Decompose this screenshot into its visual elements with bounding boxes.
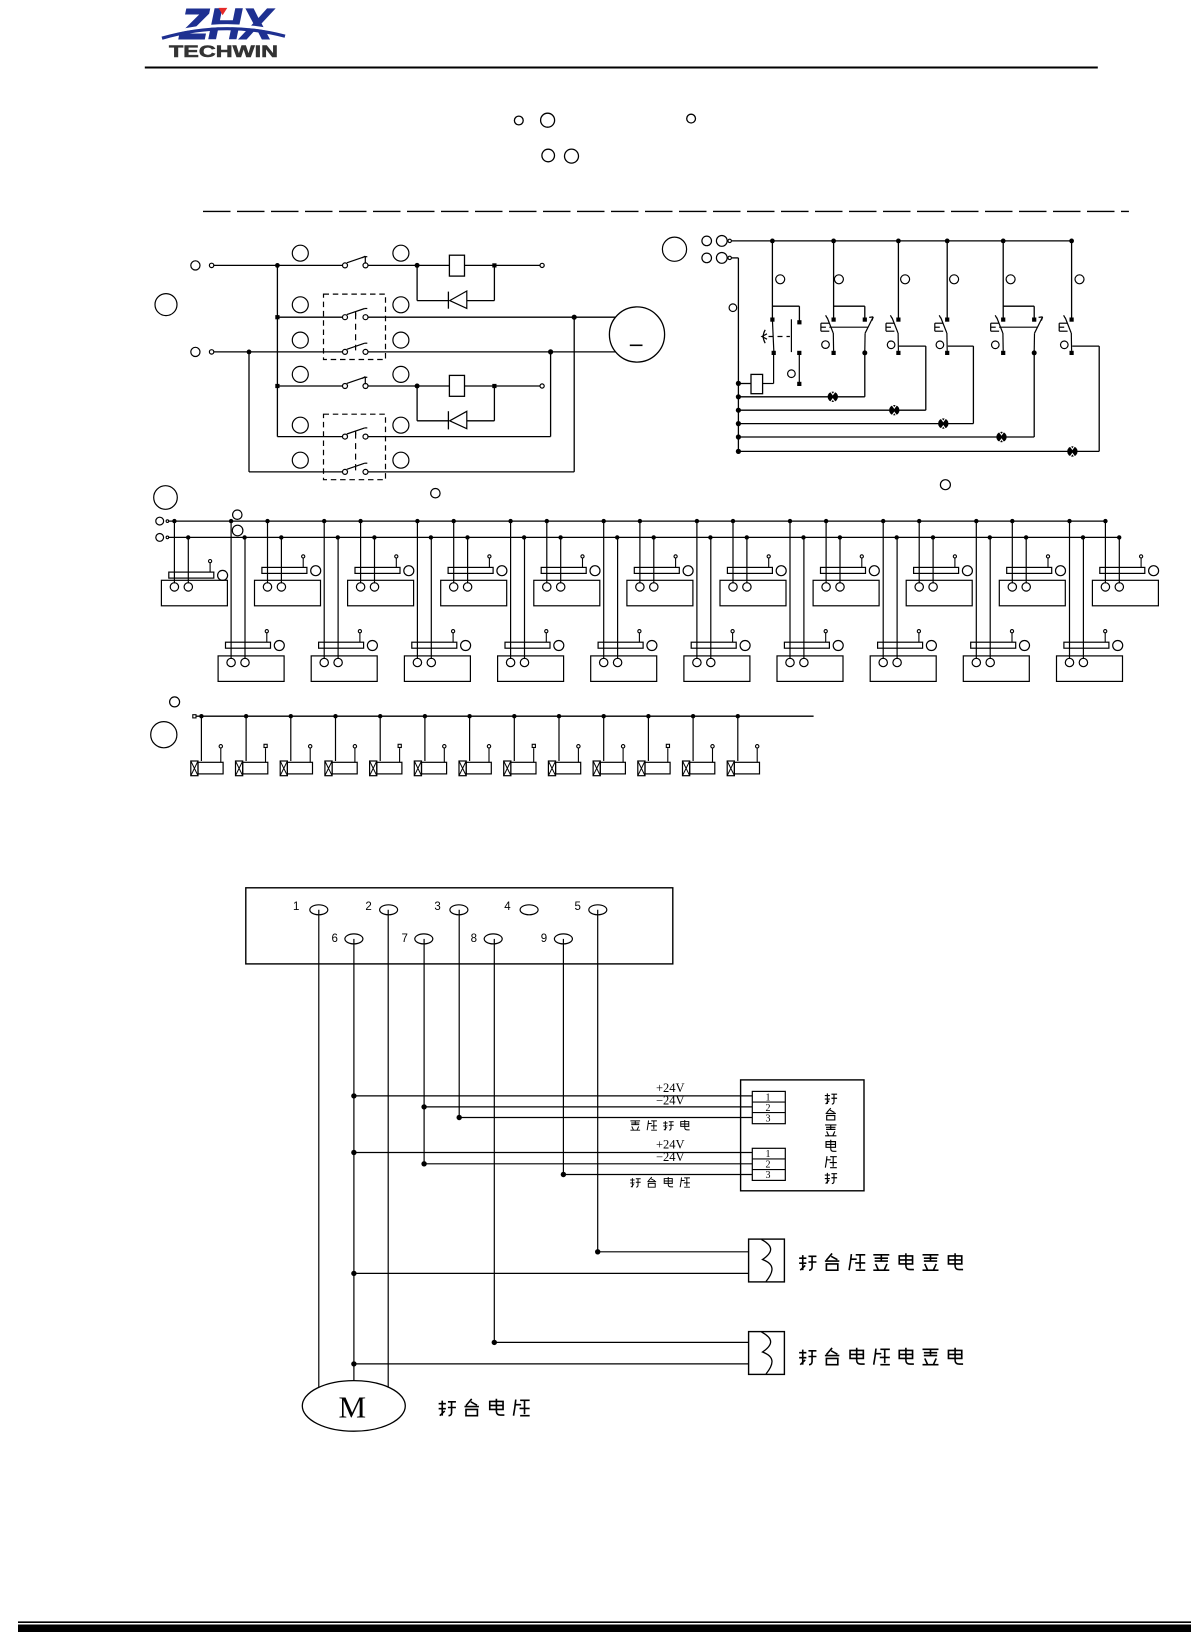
- left return bus vertical: [731, 258, 741, 454]
- flyback diode D1: [417, 267, 494, 308]
- turntable motor M: [302, 1381, 405, 1432]
- pin 1 of CN1: [293, 901, 328, 915]
- column label glyph circle C3: [901, 275, 910, 284]
- sensor block lower U15: [498, 521, 564, 681]
- wire pin8 trunk: [492, 939, 497, 1345]
- label turntable-pinch-solenoid (Chinese): [799, 1348, 963, 1365]
- title glyph circle C: [687, 114, 696, 123]
- solenoid valve Y12: [683, 716, 715, 776]
- svg-text:1: 1: [766, 1092, 771, 1103]
- header horizontal rule: [145, 67, 1098, 69]
- svg-text:6: 6: [332, 933, 338, 945]
- footer thin rule: [18, 1621, 1191, 1623]
- logo TECHWIN text: [169, 43, 278, 61]
- sensor block lower U19: [870, 521, 936, 681]
- wire pin6 to YV1: [354, 1272, 749, 1274]
- wire pin6 trunk: [351, 939, 356, 1381]
- terminal node row2 right circuit: [702, 253, 732, 264]
- label glyph circle L10: [393, 417, 409, 433]
- pin 5 of CN1: [575, 901, 607, 915]
- relay coil KA: [738, 374, 762, 393]
- wire pin3 trunk: [457, 910, 462, 1120]
- label glyph circle L12: [393, 452, 409, 468]
- label -24V lower: [656, 1150, 685, 1164]
- column label glyph circle C4: [950, 275, 959, 284]
- mechanical link dashes K1a: [355, 313, 357, 346]
- wire row1 left: [214, 263, 343, 268]
- solenoid valve Y5: [370, 716, 402, 776]
- glyph circle between buses: [232, 525, 243, 536]
- margin glyph circle left lower: [154, 486, 178, 510]
- svg-text:2: 2: [766, 1103, 771, 1114]
- glyph circle above bus1: [233, 510, 242, 519]
- switch S5 in interlock box K2a: [343, 428, 369, 439]
- pushbutton SB6: [1059, 241, 1074, 355]
- switch S3 in interlock box K1a: [343, 343, 369, 354]
- sensor block upper U5: [534, 521, 600, 606]
- solenoid valve Y13: [727, 716, 759, 776]
- title glyph circle B: [541, 113, 555, 127]
- wire SB2 to lamp row1: [738, 353, 864, 397]
- sensor block lower U18: [777, 521, 843, 681]
- wire row3 to motor: [368, 349, 616, 354]
- pushbutton SB4: [935, 241, 950, 355]
- svg-text:3: 3: [766, 1170, 771, 1181]
- label glyph circle L8: [393, 366, 409, 382]
- solenoid valve Y7: [459, 716, 491, 776]
- glyph circle SB5: [992, 341, 1000, 349]
- sensor block upper U11: [1092, 521, 1158, 606]
- left bus vertical wire x249: [249, 352, 343, 472]
- logo red triangle accent: [219, 8, 228, 15]
- net +24V (lower): [354, 1152, 752, 1154]
- wire pin9 trunk: [561, 939, 566, 1177]
- label table-in-position (Chinese): [630, 1177, 690, 1187]
- svg-text:4: 4: [504, 901, 511, 913]
- pin 4 of CN1: [504, 901, 538, 915]
- terminal node sensor bus2: [156, 534, 169, 542]
- switch S2 in interlock box K1a: [343, 309, 369, 320]
- sensor block lower U20: [963, 521, 1029, 681]
- pin 3 of CN1: [434, 901, 468, 915]
- wire K1 to terminal: [465, 263, 545, 267]
- column label glyph circle C2: [834, 275, 843, 284]
- margin glyph circle left mid: [155, 294, 177, 316]
- net -24V (upper): [424, 1106, 752, 1108]
- title glyph circle A: [514, 116, 523, 125]
- wire row3 left: [214, 350, 343, 355]
- logo swoosh arc: [162, 26, 285, 39]
- net zero-position-detect: [459, 1117, 752, 1119]
- emergency stop button SB1: [762, 241, 802, 386]
- turntable sensor board: [741, 1080, 864, 1191]
- wire SB6 to lamp: [738, 346, 1099, 451]
- sensor block upper U3: [348, 521, 414, 606]
- pushbutton SB3: [886, 241, 901, 355]
- wire pin8 to YV2: [494, 1341, 748, 1343]
- wire pin7 trunk: [421, 939, 426, 1167]
- glyph circle SB2: [822, 341, 830, 349]
- solenoid valve Y10: [593, 716, 625, 776]
- svg-text:2: 2: [766, 1160, 771, 1171]
- dashed enclosure box K1a: [324, 294, 386, 359]
- solenoid valve Y9: [548, 716, 580, 776]
- sensor block upper U2: [255, 521, 321, 606]
- pushbutton SB2 (dual pole): [821, 241, 873, 356]
- big glyph circle between circuits: [662, 237, 686, 261]
- connector block CN1: [246, 888, 673, 964]
- solenoid valve Y11: [638, 716, 670, 776]
- mechanical link dashes K2a: [355, 433, 357, 466]
- wire pin5 trunk: [595, 910, 600, 1255]
- sensor block lower U13: [311, 521, 377, 681]
- sensor block upper U7: [720, 521, 786, 606]
- svg-text:8: 8: [471, 933, 477, 945]
- label glyph circle L1: [292, 245, 308, 261]
- svg-text:3: 3: [434, 901, 440, 913]
- column label glyph circle C1: [776, 275, 785, 284]
- indicator lamp HL1: [828, 391, 838, 403]
- wire SB1 to relay coil KA: [763, 353, 774, 384]
- solenoid valve Y1: [191, 716, 223, 776]
- label turntable-motor (Chinese): [439, 1399, 530, 1416]
- switch S6 in interlock box K2a: [343, 463, 369, 474]
- flyback diode D2: [417, 388, 494, 429]
- glyph circle SB1: [788, 370, 796, 378]
- solenoid valve Y6: [414, 716, 446, 776]
- top bus wire right circuit: [731, 239, 1074, 244]
- label glyph circle L5: [292, 332, 308, 348]
- indicator lamp HL4: [996, 431, 1006, 443]
- svg-text:2: 2: [365, 901, 371, 913]
- terminal node left row3: [191, 347, 214, 356]
- label turntable-sensor-board (Chinese vertical): [825, 1093, 837, 1183]
- terminal node bus1 right circuit: [702, 236, 732, 247]
- glyph circle SB3: [887, 341, 895, 349]
- title glyph circle E: [565, 149, 579, 163]
- solenoid valve unlock YV1: [749, 1239, 785, 1282]
- wire row6 right: [368, 317, 574, 472]
- pushbutton SB5 (dual pole): [991, 241, 1043, 356]
- sensor block lower U14: [404, 521, 470, 681]
- sensor block upper U10: [999, 521, 1065, 606]
- switch S4: [343, 377, 369, 389]
- solenoid valve Y4: [325, 716, 357, 776]
- sensor block upper U9: [906, 521, 972, 606]
- label glyph circle L2: [393, 245, 409, 261]
- net table-in-position: [563, 1174, 752, 1176]
- terminal node sensor bus1: [156, 517, 169, 525]
- net -24V (lower): [424, 1163, 752, 1165]
- svg-text:3: 3: [766, 1113, 771, 1124]
- dashed enclosure box K2a: [324, 414, 386, 480]
- svg-text:M: M: [339, 1390, 367, 1425]
- indicator lamp HL5: [1067, 446, 1077, 458]
- label glyph circle L11: [292, 452, 308, 468]
- indicator lamp HL2: [889, 404, 899, 416]
- label glyph circle L3: [292, 297, 308, 313]
- pin 7 of CN1: [402, 933, 433, 945]
- svg-text:−24V: −24V: [656, 1093, 685, 1107]
- glyph circle SB6: [1061, 341, 1069, 349]
- footer thick bar: [18, 1625, 1191, 1633]
- solenoid valve pinch YV2: [749, 1332, 785, 1375]
- wire pin1 to motor: [318, 910, 320, 1388]
- dashed separator line: [203, 210, 1129, 212]
- terminal node left row1: [191, 261, 214, 270]
- junction row2: [275, 315, 342, 319]
- board connector J2: [752, 1148, 785, 1181]
- switch S1: [343, 256, 369, 268]
- glyph circle on return bus: [729, 304, 737, 312]
- glyph circle valve bus large: [151, 722, 177, 748]
- sensor block upper U8: [813, 521, 879, 606]
- column label glyph circle C5: [1006, 275, 1015, 284]
- company logo ZHX wordmark: [178, 0, 275, 49]
- valve bus wire: [193, 714, 814, 718]
- label glyph circle L9: [292, 417, 308, 433]
- solenoid valve Y8: [504, 716, 536, 776]
- label zero-position-detect (Chinese): [630, 1120, 689, 1130]
- pin 8 of CN1: [471, 933, 503, 945]
- label glyph circle L7: [292, 366, 308, 382]
- pin 6 of CN1: [332, 933, 363, 945]
- wire row5 right: [368, 352, 551, 437]
- sensor block lower U21: [1057, 521, 1123, 681]
- label +24V upper: [656, 1081, 685, 1095]
- sensor block upper U1: [161, 521, 227, 606]
- pin 2 of CN1: [365, 901, 397, 915]
- wire S1 to relay K1: [368, 263, 449, 268]
- junction row4: [275, 384, 342, 388]
- svg-text:1: 1: [293, 901, 299, 913]
- glyph circle SB4: [936, 341, 944, 349]
- board connector J1: [752, 1091, 785, 1124]
- label glyph circle L4: [393, 297, 409, 313]
- relay coil K2: [449, 375, 464, 396]
- solenoid valve Y3: [280, 716, 312, 776]
- wire row2 to motor: [368, 315, 616, 320]
- svg-text:1: 1: [766, 1149, 771, 1160]
- sensor bus2 wire: [169, 535, 1122, 539]
- wire K2 to terminal: [465, 384, 545, 388]
- svg-text:9: 9: [541, 933, 547, 945]
- wire pin5 to YV1: [598, 1251, 749, 1253]
- solenoid valve Y2: [236, 716, 268, 776]
- glyph circle mid top: [431, 489, 440, 498]
- column label glyph circle C6: [1075, 275, 1084, 284]
- sensor block lower U12: [218, 521, 284, 681]
- net +24V (upper): [354, 1095, 752, 1097]
- svg-text:7: 7: [402, 933, 408, 945]
- glyph circle valve bus small: [170, 697, 180, 707]
- label turntable-unlock-solenoid (Chinese): [799, 1253, 963, 1270]
- label -24V upper: [656, 1093, 685, 1107]
- pin 9 of CN1: [541, 933, 573, 945]
- wire S4 to relay K2: [368, 384, 449, 389]
- sensor block upper U6: [627, 521, 693, 606]
- svg-text:−24V: −24V: [656, 1150, 685, 1164]
- relay coil K1: [449, 255, 464, 276]
- glyph circle below right circuit: [940, 480, 950, 490]
- sensor block upper U4: [441, 521, 507, 606]
- label +24V lower: [656, 1138, 685, 1152]
- wire pin2 to motor: [387, 910, 389, 1387]
- svg-text:5: 5: [575, 901, 581, 913]
- svg-text:TECHWIN: TECHWIN: [169, 43, 278, 61]
- motor M1 (DC): [609, 307, 664, 362]
- sensor block lower U16: [591, 521, 657, 681]
- sensor block lower U17: [684, 521, 750, 681]
- wire SB5 to lamp row4: [738, 353, 1034, 437]
- wire SB4 to lamp: [738, 346, 973, 424]
- wire pin6 to YV2: [354, 1363, 749, 1365]
- indicator lamp HL3: [938, 418, 948, 430]
- label glyph circle L6: [393, 332, 409, 348]
- left bus vertical wire x277: [277, 265, 342, 436]
- sensor bus1 wire: [169, 519, 1108, 523]
- wire SB3 to lamp: [738, 346, 925, 410]
- title glyph circle D: [542, 149, 555, 162]
